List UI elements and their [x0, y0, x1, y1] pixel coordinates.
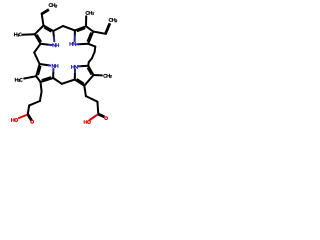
ring D bond Cb1-Cb2 — [36, 76, 40, 82]
ring D bond Ca1=Cb1 — [41, 78, 54, 82]
ring A NH label — [52, 44, 54, 47]
ring C bond Cb1-Cb2 — [84, 75, 93, 86]
ring C HN label — [71, 65, 73, 68]
right meso CH2 bridge — [88, 44, 95, 47]
ring A bond N-Ca1 blue part — [53, 37, 55, 41]
ring C bond N-Ca1 blue part — [74, 69, 76, 74]
ring C double bond inner Cb2=Ca2 — [88, 68, 91, 74]
ring B vinyl CH2 label — [109, 18, 112, 21]
ring C bond Ca2-N blue part — [79, 65, 80, 67]
bottom-left O label — [31, 120, 34, 123]
left meso CH2 bridge — [34, 44, 40, 53]
ring C bond Cb2=Ca2 — [88, 66, 93, 75]
ring B bond Cb1-Cb2 — [86, 26, 93, 31]
ring D bond N-Ca1 blue part — [52, 69, 54, 73]
ring D double bond inner Ca1=Cb1 — [42, 77, 50, 80]
ring A bond N-Ca1 upper — [52, 31, 55, 37]
ring A bond Cb2=Ca2 — [35, 34, 41, 44]
ring C propionate chain — [84, 86, 86, 96]
ring B bond Ca1=Cb1 — [75, 26, 86, 30]
bottom-left HO label — [11, 119, 13, 122]
ring D bond Cb2=Ca2 — [36, 64, 39, 76]
ring C bond Ca2-N — [80, 65, 88, 67]
ring B bond Cb2=Ca2 — [88, 32, 93, 44]
ring D methyl bond — [24, 76, 36, 78]
ring A bond Ca2-N blue part — [49, 44, 52, 46]
ring B methyl bond — [85, 16, 87, 26]
ring A vinyl double bond CH=CH2 — [42, 10, 49, 14]
ring B bond Ca2-N blue part — [77, 43, 79, 45]
ring B double bond inner Cb2=Ca2 — [88, 33, 91, 41]
ring D H3C label — [14, 78, 16, 81]
ring A vinyl stem bond — [42, 14, 44, 26]
ring A bond Ca2-N — [41, 43, 50, 46]
ring C CH3 label — [104, 74, 107, 77]
ring A methyl bond — [22, 33, 35, 36]
ring B CH3 label — [86, 11, 89, 14]
ring D bond Ca2-N — [40, 64, 49, 65]
bottom-right HO label — [83, 121, 85, 124]
ring A vinyl CH2 label — [49, 4, 52, 7]
ring B vinyl double bond CH=CH2 — [106, 24, 110, 34]
ring A double bond inner Cb2=Ca2 — [37, 35, 41, 41]
bottom meso CH2 bridge — [53, 78, 62, 84]
bottom-left C-OH bond — [19, 115, 27, 118]
ring B bond N-Ca1 blue part — [74, 36, 76, 42]
top meso CH2 bridge — [53, 26, 63, 31]
ring D double bond inner Cb2=Ca2 — [38, 67, 40, 75]
ring D bond Ca2-N blue part — [49, 64, 51, 66]
ring A bond Cb1-Cb2 — [35, 26, 44, 35]
ring C bond Ca1=Cb1 — [75, 80, 85, 86]
ring C methyl bond — [94, 74, 102, 76]
ring D bond N-Ca1 lower — [52, 73, 54, 78]
ring B double bond inner Ca1=Cb1 — [77, 29, 84, 32]
bottom-left carboxyl C=O — [27, 115, 31, 121]
bottom-right C-OH bond — [90, 115, 97, 120]
bottom-right O label — [105, 117, 108, 120]
ring C bond N-Ca1 lower — [74, 74, 76, 80]
ring B HN label — [69, 42, 71, 45]
ring B bond N-Ca1 upper — [74, 30, 76, 35]
ring D NH label — [51, 64, 53, 67]
bottom-right carboxyl C=O — [98, 115, 104, 117]
ring B bond Ca2-N — [79, 43, 89, 45]
ring A bond Ca1=Cb1 — [44, 26, 54, 32]
ring B vinyl bond — [93, 32, 105, 34]
ring A double bond inner Ca1=Cb1 — [44, 28, 50, 32]
ring A H3C label — [13, 33, 15, 36]
ring D propionate chain — [41, 82, 42, 92]
ring C double bond inner Ca1=Cb1 — [77, 79, 83, 83]
